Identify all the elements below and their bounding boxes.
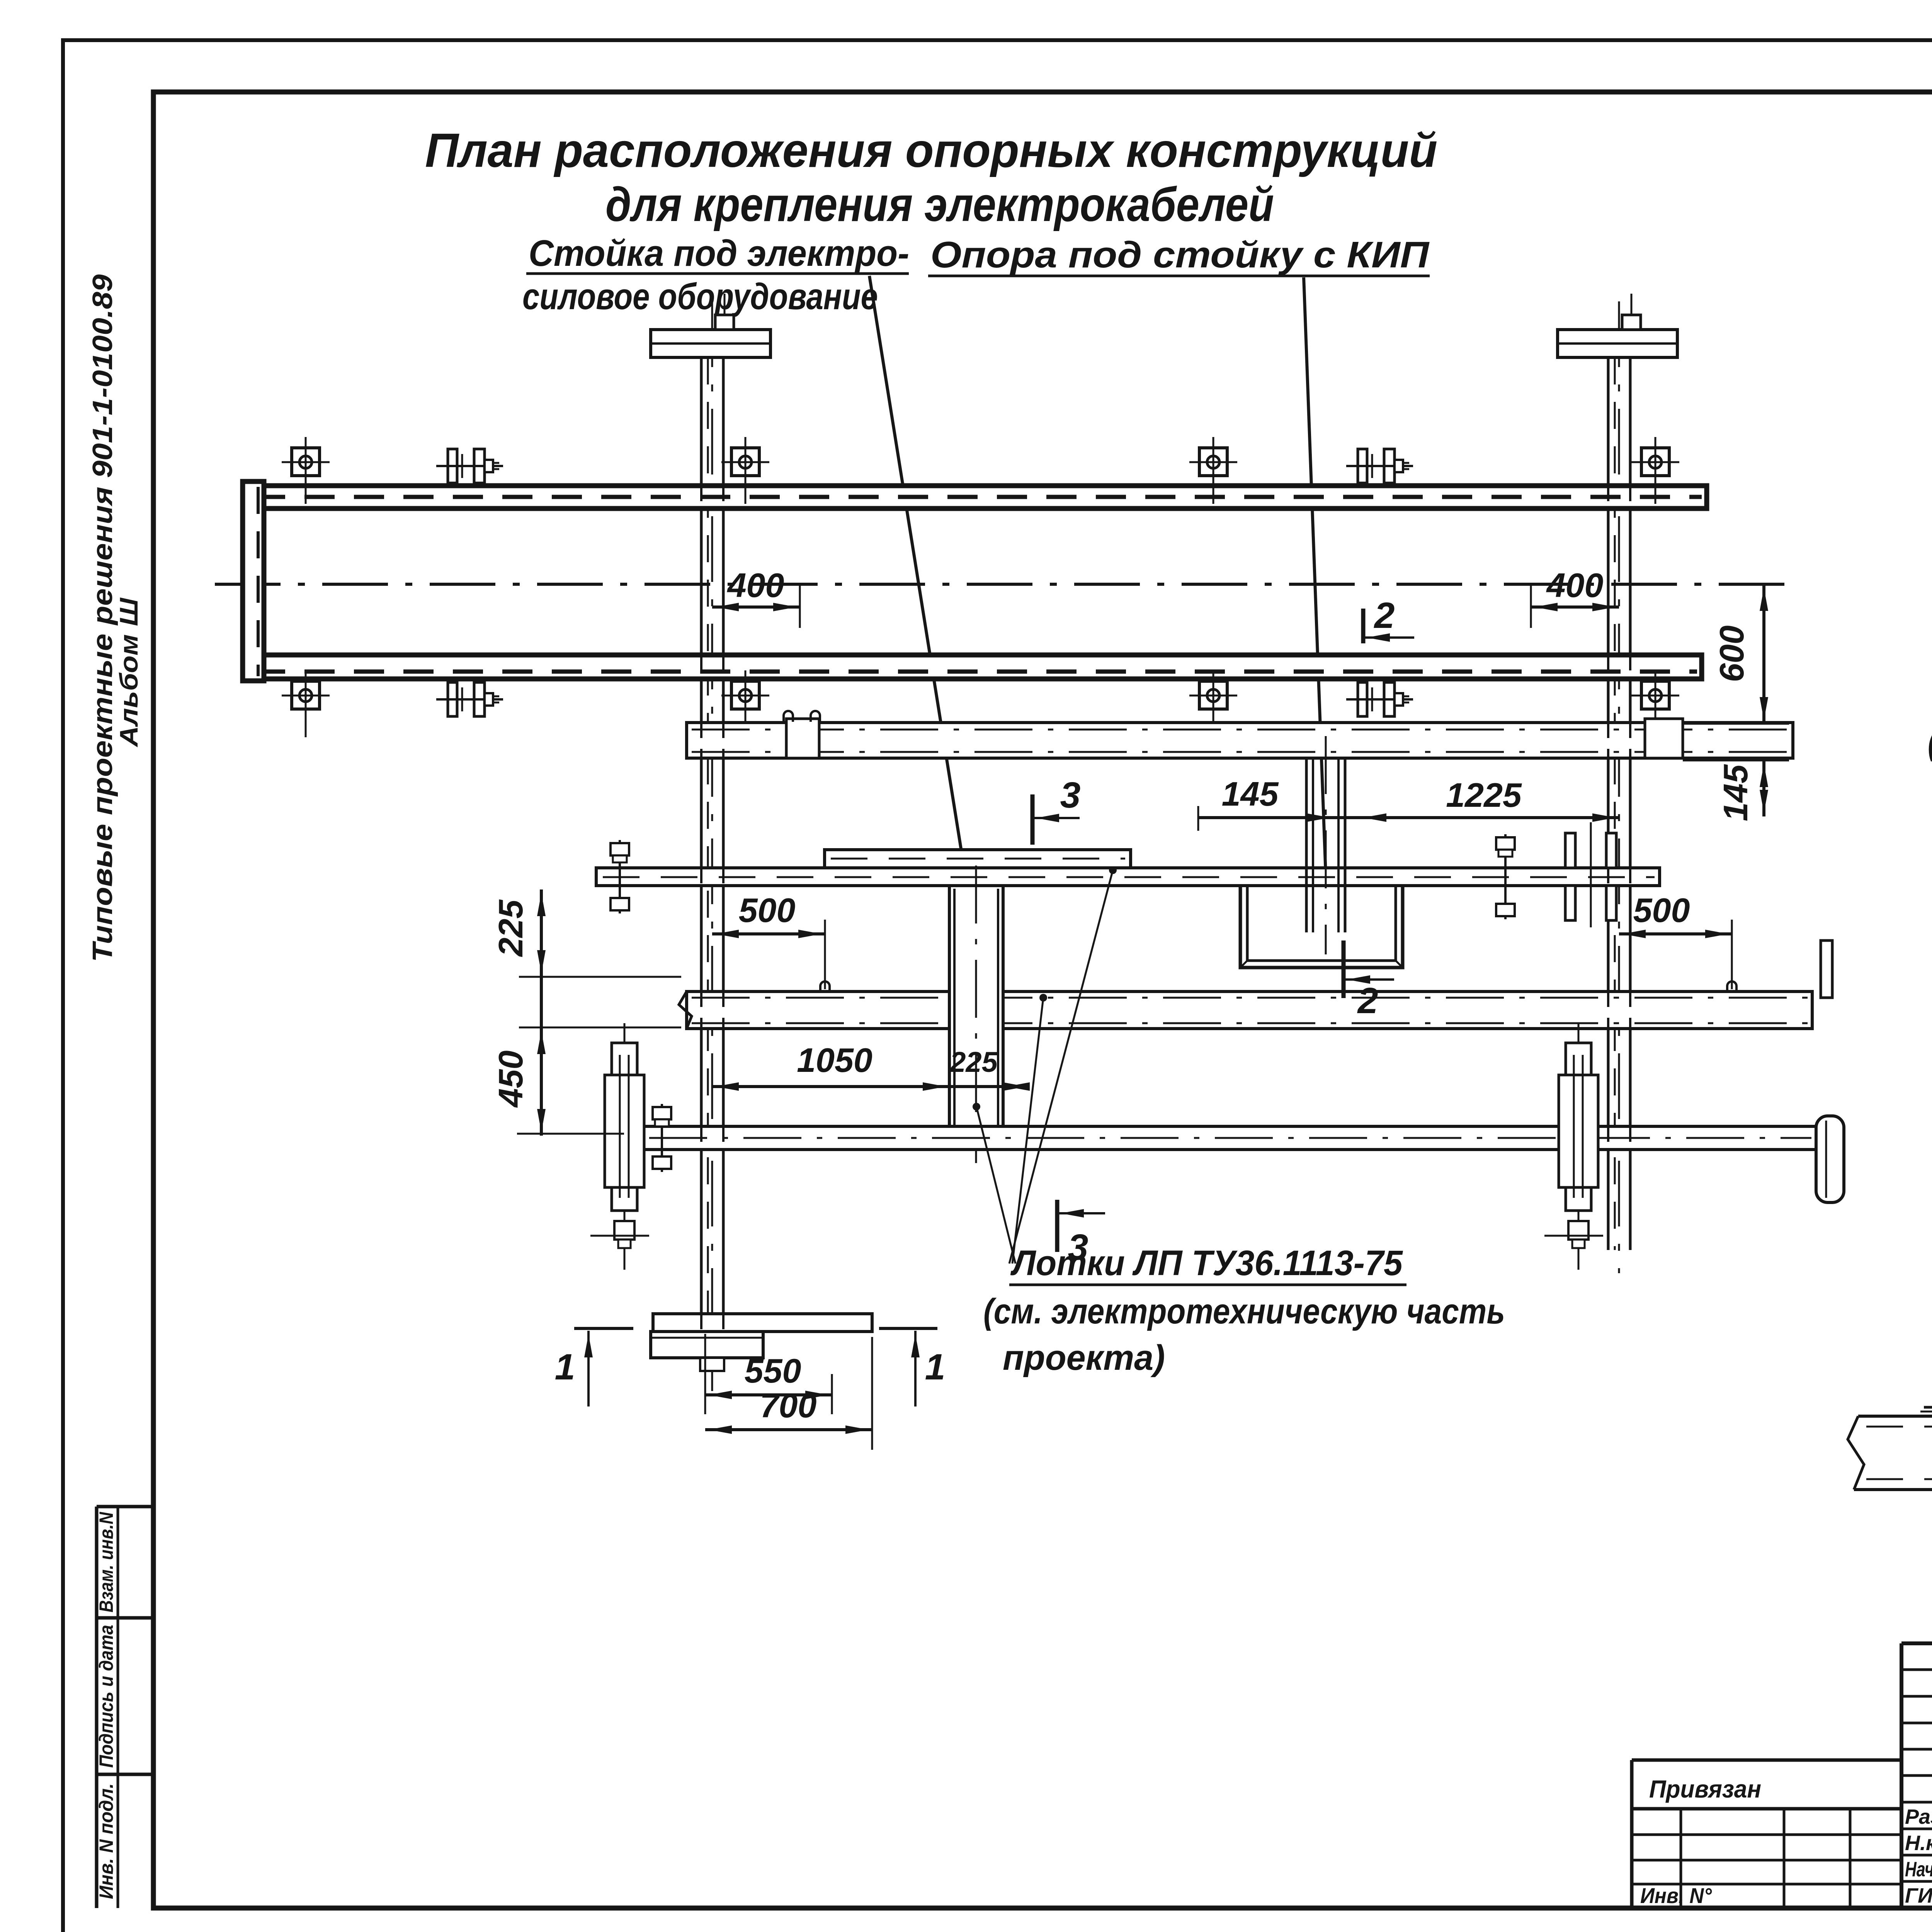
svg-text:225: 225 <box>949 1046 998 1078</box>
hidden stanchion lines in beams <box>700 486 702 509</box>
signature table rows <box>1901 1668 1932 1671</box>
leaders from trays label <box>1009 870 1113 1264</box>
splice plate on rail A <box>786 719 819 758</box>
svg-text:700: 700 <box>760 1386 817 1425</box>
stanchion column at x=4190 <box>1607 357 1610 1250</box>
bolt plate with hole at x=4284 <box>1641 681 1669 709</box>
svg-text:ГИП.: ГИП. <box>1905 1884 1932 1907</box>
section mark 1 right <box>879 1327 937 1330</box>
svg-text:Типовые проектные решения 901: Типовые проектные решения 901-1-0100.89 <box>87 274 118 962</box>
svg-text:План расположения опорных к: План расположения опорных конструкций <box>425 124 1437 177</box>
hanger slotted plate at x=4085 <box>1578 1023 1580 1275</box>
svg-text:(см. электротехническую: (см. электротехническую <box>1928 723 1932 762</box>
left end plate of beam pair <box>243 481 264 681</box>
svg-text:Разраб.: Разраб. <box>1905 1805 1932 1828</box>
svg-text:для крепления электрокабелей: для крепления электрокабелей <box>605 178 1274 231</box>
dimension 500 right <box>1619 932 1732 935</box>
svg-text:проекта): проекта) <box>1003 1338 1165 1378</box>
svg-text:Стойка под электро-: Стойка под электро- <box>529 233 909 274</box>
stanchion base beam <box>653 1314 872 1332</box>
svg-text:500: 500 <box>739 891 796 929</box>
section mark 3 top <box>1031 794 1035 845</box>
bolt plate with hole at x=4284 <box>1641 448 1669 476</box>
bolt plate with hole at x=1929 <box>731 681 759 709</box>
hanger slotted plate at x=1616 <box>624 1023 626 1275</box>
bolt plate with hole at x=1929 <box>731 448 759 476</box>
clamp hooks on rail A <box>784 711 793 722</box>
svg-text:225: 225 <box>492 900 530 957</box>
svg-text:Подпись и дата: Подпись и дата <box>95 1625 117 1768</box>
main axis line <box>215 583 1796 586</box>
bolt plate with hole at x=3140 <box>1199 681 1227 709</box>
stanchion top cap <box>1558 330 1677 357</box>
title block verticals <box>1900 1643 1903 1908</box>
svg-text:2: 2 <box>1374 595 1395 636</box>
support plate on rail B <box>825 850 1131 868</box>
stanchion column at x=1843 <box>700 357 703 1332</box>
svg-text:1225: 1225 <box>1446 776 1522 814</box>
dimension 600 right side <box>1762 584 1765 724</box>
svg-text:Инв. N подл.: Инв. N подл. <box>95 1783 117 1899</box>
svg-text:Лотки ЛП ТУ36.1113-75: Лотки ЛП ТУ36.1113-75 <box>1010 1243 1403 1283</box>
svg-text:Н.контр: Н.контр <box>1905 1832 1932 1855</box>
privyazan box <box>1632 1759 1901 1762</box>
dimension 400 left <box>712 605 800 609</box>
svg-text:Нач.отд.: Нач.отд. <box>1905 1858 1932 1881</box>
left grid columns <box>1680 1809 1682 1908</box>
title block top line <box>1901 1641 1932 1645</box>
svg-text:550: 550 <box>745 1352 801 1390</box>
svg-text:силовое оборудование: силовое оборудование <box>522 276 878 317</box>
svg-text:Опора под стойку с КИП: Опора под стойку с КИП <box>930 234 1430 276</box>
svg-text:500: 500 <box>1633 891 1690 929</box>
section mark 1 left <box>574 1327 633 1330</box>
bolt plate with hole at x=3140 <box>1199 448 1227 476</box>
dimension 225 at stand <box>1007 1082 1030 1091</box>
vertical bolt through rail at x=3896 <box>1504 834 1507 919</box>
small hanger plate right of rail B <box>1821 940 1832 998</box>
dimension 1050 <box>712 1085 1024 1088</box>
rail A - middle support beam <box>687 723 1793 758</box>
KIP stand channel <box>1305 758 1308 932</box>
section mark 3 bottom <box>1055 1200 1060 1252</box>
dimension 700 <box>705 1428 872 1431</box>
section 3-3 top plate <box>1924 1406 1932 1409</box>
svg-text:400: 400 <box>1546 566 1604 604</box>
left grid rows <box>1632 1833 1901 1836</box>
svg-text:1: 1 <box>925 1347 946 1388</box>
leader to KIP support <box>1304 277 1326 885</box>
double plate bolt cluster on rail B right <box>1565 833 1575 868</box>
svg-text:1050: 1050 <box>797 1041 872 1079</box>
section 3-3 beam <box>1858 1415 1932 1418</box>
dimension 145 right side <box>1762 760 1765 816</box>
dimension 145 at KIP stand <box>1198 816 1619 819</box>
vertical bolt through rail at x=1713 <box>661 1104 663 1172</box>
stanchion top cap <box>651 330 770 357</box>
through-bolt assembly at x=3565 <box>1358 449 1367 483</box>
through-bolt assembly at x=3565 <box>1358 682 1367 716</box>
round end plate of rail D <box>1816 1116 1844 1202</box>
svg-text:(см. электротехническую часть: (см. электротехническую часть <box>983 1292 1505 1331</box>
margin box: Взам. инв.№ <box>97 1505 153 1509</box>
svg-text:2: 2 <box>1357 980 1378 1021</box>
svg-text:Инв. N°: Инв. N° <box>1640 1883 1712 1908</box>
margin box divider 1 <box>97 1616 153 1620</box>
svg-text:145: 145 <box>1222 775 1279 813</box>
bottom chord beam <box>243 655 1702 679</box>
dimension 550 <box>705 1393 832 1396</box>
bolt plate with hole at x=791 <box>292 681 320 709</box>
svg-text:Взам. инв.N: Взам. инв.N <box>95 1512 117 1612</box>
dimension 400 right <box>1531 605 1619 609</box>
vertical bolt through rail at x=1604 <box>619 840 621 913</box>
top chord beam <box>243 486 1707 509</box>
left dimension chain 225/450 <box>540 889 543 1136</box>
rail D - lower cable tray rail <box>643 1126 1816 1150</box>
svg-text:600: 600 <box>1713 626 1751 682</box>
cap bolt axes <box>724 294 726 315</box>
bolt plate with hole at x=791 <box>292 448 320 476</box>
through-bolt assembly at x=1210 <box>448 682 457 716</box>
leader to central stand <box>869 276 967 885</box>
section mark 2 top <box>1361 609 1366 643</box>
dimension 500 left <box>712 932 825 935</box>
rail C left end break <box>679 992 692 1029</box>
svg-text:145: 145 <box>1716 764 1755 821</box>
rail B - cable tray rail <box>596 868 1660 886</box>
central equipment stand <box>949 886 1003 1142</box>
svg-text:Альбом Ш: Альбом Ш <box>114 597 143 748</box>
margin box divider 2 <box>97 1773 153 1776</box>
base channel <box>651 1332 763 1358</box>
svg-text:3: 3 <box>1060 775 1081 816</box>
svg-text:Привязан: Привязан <box>1649 1775 1761 1803</box>
through-bolt assembly at x=1210 <box>448 449 457 483</box>
section mark 2 bottom <box>1342 940 1346 998</box>
svg-text:400: 400 <box>727 566 784 604</box>
svg-text:450: 450 <box>492 1051 530 1108</box>
rail C - wide double channel beam <box>687 992 1812 1029</box>
KIP support box (channel) under rail B <box>1240 887 1403 968</box>
base nut <box>700 1358 724 1371</box>
svg-text:1: 1 <box>555 1347 575 1388</box>
